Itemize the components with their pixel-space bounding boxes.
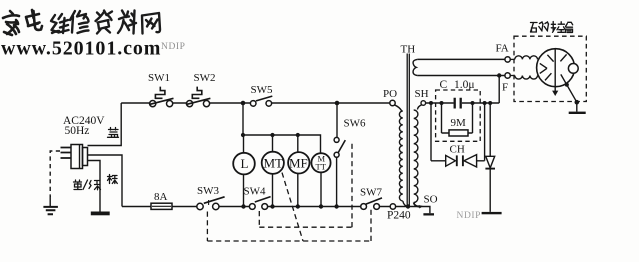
svg-text:PO: PO	[383, 88, 397, 100]
svg-text:SO: SO	[424, 193, 438, 205]
switch SW2	[187, 101, 193, 107]
node anode box edge	[575, 100, 580, 105]
resistor 9M leads	[442, 103, 473, 133]
svg-text:SW1: SW1	[148, 72, 170, 84]
linkage SW3 vertical	[206, 212, 208, 242]
svg-text:SW2: SW2	[194, 72, 216, 84]
magnetron cathode line	[554, 49, 556, 91]
magnetron dashed box	[514, 36, 586, 101]
capacitor C plates	[455, 98, 461, 109]
svg-text:SW5: SW5	[251, 84, 274, 96]
motor MF	[288, 152, 309, 173]
transformer filament winding bracket	[413, 59, 417, 75]
wire bus to MF	[297, 135, 299, 152]
wire blue: plug to top rail	[88, 103, 122, 146]
node rail-MT	[270, 204, 274, 208]
linkage SW7 vertical	[370, 209, 372, 242]
chassis bar	[92, 212, 110, 214]
bottom rail wire	[122, 206, 390, 208]
magnetron U1 body	[537, 49, 575, 87]
node rail-xfmr primary	[406, 204, 410, 208]
terminal SH	[421, 101, 426, 106]
svg-text:CH: CH	[450, 143, 465, 155]
diode CH left	[446, 155, 495, 169]
wire rail to SW6	[336, 103, 338, 137]
svg-text:L: L	[241, 156, 249, 171]
label brown hanzi	[108, 175, 118, 184]
magnetron vanes	[545, 54, 567, 80]
linkage SW4 vertical	[258, 211, 260, 227]
label magnetron hanzi 磁控管	[531, 22, 549, 32]
svg-text:50Hz: 50Hz	[65, 125, 90, 137]
HV diode wire	[489, 103, 491, 212]
svg-text:F: F	[502, 81, 508, 93]
svg-text:SW6: SW6	[344, 118, 367, 130]
magnetron heater coils	[515, 56, 538, 60]
svg-text:www.520101.com: www.520101.com	[1, 38, 161, 60]
svg-text:1.0μ: 1.0μ	[454, 79, 475, 91]
HV diode symbol	[486, 156, 495, 168]
load bus wire	[243, 135, 321, 153]
magnetron anode line to ground	[561, 74, 577, 111]
node bus-L	[241, 133, 245, 137]
node HV wire dots	[429, 101, 433, 105]
magnetron ground bar	[569, 112, 586, 114]
coil end blob	[419, 205, 424, 209]
magnetron cathode arrow	[540, 63, 547, 73]
secondary to SO ground	[396, 207, 430, 214]
node F junction	[497, 73, 501, 77]
motor M/TT	[311, 153, 330, 172]
node bus-MT	[270, 133, 274, 137]
diode CH right	[462, 155, 464, 166]
wire bus to L	[243, 135, 245, 153]
filament wire lower	[417, 75, 505, 77]
earth dashed lead	[50, 151, 60, 197]
svg-text:SW4: SW4	[244, 186, 267, 198]
terminal FA	[505, 57, 510, 62]
terminal F	[505, 73, 510, 78]
filament wire upper	[417, 58, 505, 60]
magnetron antenna loop	[568, 64, 578, 74]
svg-text:P240: P240	[387, 210, 411, 222]
svg-text:SW3: SW3	[197, 185, 220, 197]
label blue hanzi	[108, 128, 119, 138]
wire SW6 to bottom rail	[336, 157, 338, 206]
svg-text:TT: TT	[316, 162, 327, 172]
transformer core	[407, 54, 409, 207]
node rail-MTT	[319, 204, 323, 208]
resistor 9M body	[449, 130, 468, 136]
HV wire SH to F node	[426, 76, 500, 104]
site logo calligraphy 家电维修资料网	[3, 10, 160, 35]
switch SW5	[250, 101, 256, 107]
svg-text:9M: 9M	[451, 117, 467, 129]
AC plug prongs	[61, 148, 72, 159]
linkage diagonal MT	[282, 173, 303, 241]
wire rail junction down to load bus	[242, 103, 244, 135]
wire bus to MT	[272, 135, 274, 152]
svg-text:NDIP: NDIP	[457, 211, 482, 221]
node rail-L	[241, 204, 245, 208]
svg-text:MF: MF	[289, 156, 308, 171]
linkage outer horizontal	[207, 240, 371, 242]
svg-text:SW7: SW7	[360, 187, 383, 199]
top rail wire	[121, 102, 390, 104]
switch SW4	[249, 204, 255, 210]
svg-text:FA: FA	[496, 42, 509, 54]
linkage SW6 vertical	[351, 143, 353, 227]
svg-text:C: C	[440, 79, 448, 91]
FA stub	[510, 58, 515, 60]
magnetron output arrow	[552, 91, 558, 96]
svg-text:TH: TH	[401, 44, 416, 56]
wire earth yellow/green to chassis	[88, 161, 101, 213]
svg-text:SH: SH	[415, 88, 429, 100]
lamp L	[233, 153, 255, 175]
node bus-MF	[296, 133, 300, 137]
wire MT to bottom rail	[272, 174, 274, 207]
F stub	[510, 75, 515, 77]
SO ground bar	[423, 213, 434, 215]
transformer primary winding	[394, 105, 402, 111]
switch SW1	[150, 101, 156, 107]
node rail-MF	[296, 204, 300, 208]
HV diode ground bar	[482, 212, 502, 214]
label yellow/green hanzi	[74, 180, 101, 190]
capacitor module dashed box	[436, 90, 481, 141]
AC plug body	[71, 145, 83, 169]
wire L to bottom rail	[243, 174, 245, 206]
wire brown: plug to bottom rail	[88, 155, 123, 207]
svg-text:8A: 8A	[154, 191, 168, 203]
motor MT	[262, 152, 284, 174]
svg-text:NDIP: NDIP	[161, 42, 186, 52]
switch SW7	[361, 204, 367, 210]
terminal PO	[390, 100, 395, 105]
wire M/TT to bottom rail	[320, 172, 322, 206]
node top rail junction x337	[335, 101, 340, 106]
diode pair CH wires	[431, 103, 485, 161]
node top rail junction x243	[241, 101, 246, 106]
linkage inner horizontal	[259, 226, 352, 228]
wire MF to bottom rail	[297, 174, 299, 207]
switch SW3	[197, 203, 203, 209]
switch SW6	[334, 137, 339, 142]
svg-text:MT: MT	[264, 156, 284, 171]
fuse 8A	[151, 203, 172, 209]
terminal P240	[390, 204, 395, 209]
node rail-SW6	[334, 204, 338, 208]
earth ground symbol	[49, 196, 51, 206]
node anode rim	[565, 83, 569, 87]
transformer secondary winding	[417, 105, 421, 110]
